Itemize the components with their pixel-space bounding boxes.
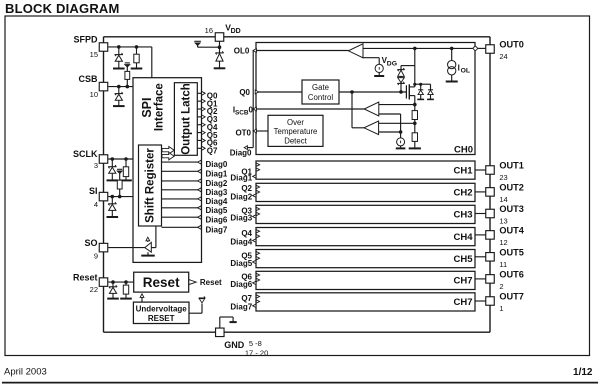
svg-text:CH7: CH7 [453, 276, 472, 287]
svg-text:Temperature: Temperature [274, 127, 318, 136]
svg-text:CH5: CH5 [453, 254, 473, 265]
svg-text:SO: SO [84, 238, 97, 248]
svg-text:4: 4 [94, 200, 98, 209]
svg-text:SPI: SPI [140, 98, 154, 118]
svg-text:CSB: CSB [78, 74, 98, 84]
svg-text:Diag6: Diag6 [206, 215, 228, 224]
svg-text:OL: OL [461, 68, 470, 75]
svg-text:SCLK: SCLK [73, 149, 98, 159]
svg-text:Diag7: Diag7 [206, 225, 228, 234]
svg-text:5 -8: 5 -8 [249, 339, 262, 348]
svg-text:13: 13 [499, 217, 507, 226]
svg-text:Detect: Detect [284, 136, 307, 145]
svg-text:Over: Over [287, 118, 304, 127]
svg-text:Q7: Q7 [207, 146, 218, 155]
svg-text:Diag4: Diag4 [230, 237, 252, 246]
svg-text:Undervoltage: Undervoltage [136, 305, 188, 314]
svg-text:Diag2: Diag2 [230, 193, 252, 202]
svg-text:SFPD: SFPD [73, 35, 98, 45]
svg-text:12: 12 [499, 238, 507, 247]
svg-text:OL0: OL0 [234, 47, 250, 56]
svg-text:Reset: Reset [143, 275, 180, 290]
svg-text:Diag3: Diag3 [206, 188, 228, 197]
svg-text:RESET: RESET [148, 314, 175, 323]
svg-text:Shift Register: Shift Register [145, 148, 157, 223]
svg-text:Q0: Q0 [239, 88, 250, 97]
svg-text:BLOCK DIAGRAM: BLOCK DIAGRAM [5, 1, 120, 16]
svg-text:Diag2: Diag2 [206, 179, 228, 188]
svg-text:OUT5: OUT5 [499, 248, 524, 258]
svg-text:OUT4: OUT4 [499, 226, 524, 236]
svg-text:9: 9 [94, 252, 98, 261]
svg-text:Reset: Reset [200, 278, 222, 287]
svg-text:GND: GND [224, 340, 245, 350]
svg-text:OUT7: OUT7 [499, 292, 524, 302]
svg-text:1/12: 1/12 [573, 367, 593, 378]
svg-text:CH0: CH0 [454, 145, 473, 156]
svg-text:23: 23 [499, 173, 507, 182]
svg-text:Diag4: Diag4 [206, 197, 228, 206]
svg-text:17 - 20: 17 - 20 [245, 348, 268, 357]
svg-text:1: 1 [499, 304, 503, 313]
svg-text:CH4: CH4 [453, 232, 473, 243]
svg-text:Interface: Interface [154, 83, 166, 131]
svg-text:SI: SI [89, 186, 98, 196]
svg-text:DD: DD [231, 28, 241, 35]
svg-text:15: 15 [90, 50, 98, 59]
svg-text:22: 22 [90, 285, 98, 294]
svg-text:16: 16 [205, 26, 213, 35]
svg-text:OUT0: OUT0 [499, 40, 524, 50]
svg-text:Gate: Gate [312, 83, 329, 92]
svg-text:CH7: CH7 [453, 297, 472, 308]
svg-text:CH2: CH2 [453, 188, 472, 199]
svg-text:CH1: CH1 [453, 165, 473, 176]
svg-text:24: 24 [499, 52, 507, 61]
svg-text:CH3: CH3 [453, 210, 472, 221]
svg-text:I: I [458, 63, 460, 72]
svg-text:Reset: Reset [73, 272, 98, 282]
svg-text:Diag3: Diag3 [230, 213, 252, 222]
svg-text:April 2003: April 2003 [4, 367, 47, 378]
svg-text:Diag1: Diag1 [230, 173, 252, 182]
svg-text:Control: Control [308, 93, 333, 102]
svg-text:Output Latch: Output Latch [180, 83, 192, 155]
svg-text:3: 3 [94, 161, 98, 170]
svg-text:OUT1: OUT1 [499, 161, 524, 171]
svg-text:Diag0: Diag0 [206, 160, 228, 169]
svg-text:OUT6: OUT6 [499, 270, 524, 280]
svg-text:OUT3: OUT3 [499, 204, 524, 214]
svg-text:10: 10 [90, 90, 98, 99]
svg-text:Diag5: Diag5 [230, 259, 252, 268]
svg-text:OUT2: OUT2 [499, 183, 524, 193]
svg-text:11: 11 [499, 260, 507, 269]
svg-text:OT0: OT0 [235, 128, 251, 137]
svg-text:Diag6: Diag6 [230, 280, 252, 289]
svg-text:Diag7: Diag7 [230, 303, 252, 312]
svg-text:2: 2 [499, 282, 503, 291]
svg-text:Diag0: Diag0 [230, 149, 252, 158]
svg-text:DG: DG [387, 60, 397, 67]
svg-text:Diag5: Diag5 [206, 206, 228, 215]
svg-text:Diag1: Diag1 [206, 169, 228, 178]
svg-text:14: 14 [499, 195, 507, 204]
